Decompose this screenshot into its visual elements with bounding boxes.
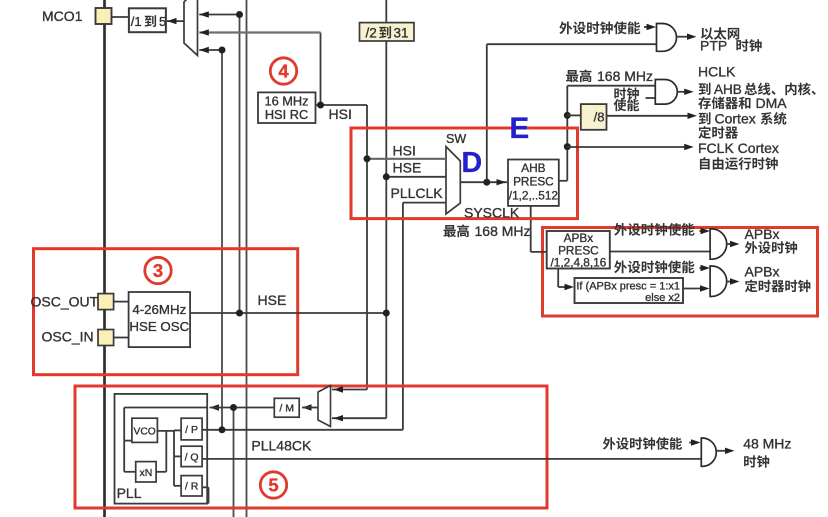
- svg-text:HSI: HSI: [393, 143, 416, 159]
- svg-text:SW: SW: [446, 132, 466, 146]
- svg-text:31: 31: [394, 26, 409, 41]
- svg-text:VCO: VCO: [134, 427, 156, 438]
- svg-text:/1,2,4,8,16: /1,2,4,8,16: [551, 256, 607, 270]
- svg-text:168 MHz: 168 MHz: [597, 68, 653, 84]
- svg-text:APBx: APBx: [745, 264, 780, 280]
- svg-text:/ P: / P: [185, 424, 198, 436]
- svg-text:PLL48CK: PLL48CK: [251, 438, 312, 454]
- svg-text:DMA: DMA: [756, 95, 788, 111]
- svg-text:D: D: [462, 147, 483, 179]
- svg-text:HSE: HSE: [393, 160, 422, 176]
- svg-text:3: 3: [153, 260, 163, 281]
- svg-text:Cortex: Cortex: [715, 111, 756, 127]
- svg-text:OSC_OUT: OSC_OUT: [31, 294, 99, 310]
- svg-text:If (APBx presc = 1:x1: If (APBx presc = 1:x1: [576, 281, 680, 293]
- svg-text:PTP: PTP: [700, 38, 727, 54]
- svg-text:else x2: else x2: [645, 292, 680, 304]
- svg-text:48 MHz: 48 MHz: [743, 436, 791, 452]
- svg-text:AHB: AHB: [521, 161, 545, 175]
- svg-text:4: 4: [278, 61, 289, 82]
- svg-text:4-26MHz: 4-26MHz: [132, 302, 186, 317]
- svg-text:PLL: PLL: [117, 485, 142, 501]
- svg-text:MCO1: MCO1: [42, 8, 83, 24]
- svg-text:/ R: / R: [185, 481, 199, 493]
- svg-text:/ Q: / Q: [185, 451, 199, 463]
- svg-text:HSI: HSI: [329, 106, 352, 122]
- svg-text:/2: /2: [366, 26, 377, 41]
- svg-text:xN: xN: [139, 467, 152, 479]
- svg-text:OSC_IN: OSC_IN: [42, 329, 94, 345]
- svg-text:/1,2,..512: /1,2,..512: [509, 189, 558, 203]
- svg-text:/1: /1: [131, 14, 142, 29]
- svg-text:5: 5: [268, 475, 278, 496]
- svg-text:/ M: / M: [279, 403, 294, 415]
- svg-text:AHB: AHB: [714, 82, 742, 97]
- svg-text:SYSCLK: SYSCLK: [464, 205, 520, 221]
- svg-text:E: E: [510, 112, 530, 145]
- svg-text:HCLK: HCLK: [698, 64, 736, 80]
- svg-text:HSI RC: HSI RC: [265, 107, 308, 122]
- svg-text:APBx: APBx: [745, 226, 780, 242]
- svg-text:PLLCLK: PLLCLK: [391, 185, 444, 201]
- svg-text:168 MHz: 168 MHz: [475, 223, 531, 239]
- svg-text:HSE: HSE: [258, 292, 287, 308]
- svg-text:PRESC: PRESC: [513, 175, 554, 189]
- svg-text:5: 5: [159, 14, 166, 29]
- svg-text:FCLK Cortex: FCLK Cortex: [698, 140, 779, 156]
- svg-text:/8: /8: [594, 110, 605, 125]
- svg-text:HSE OSC: HSE OSC: [129, 319, 189, 334]
